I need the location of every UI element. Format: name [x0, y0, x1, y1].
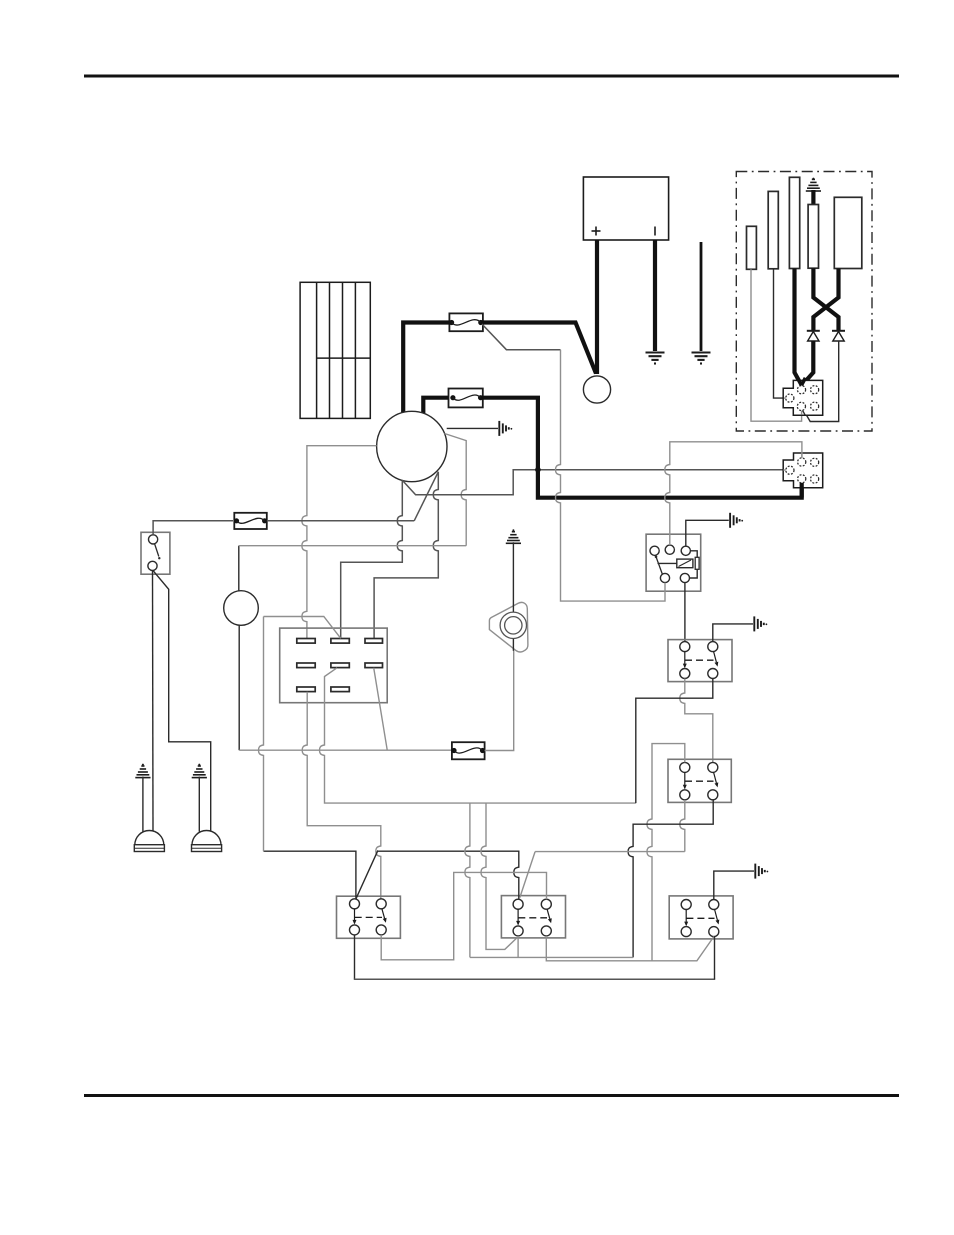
- wire alternator bottom-left vertical: [341, 480, 403, 638]
- ground SW-E (rotated): [755, 864, 768, 879]
- fuse F3: [234, 513, 267, 529]
- fuse F4: [451, 742, 485, 759]
- ground harness inverted: [806, 178, 821, 191]
- wire SW-E to ground: [714, 871, 754, 899]
- fuse F2: [449, 389, 484, 408]
- wire alternator lower-right diagonal: [445, 434, 467, 546]
- connector J2 (main): [783, 453, 823, 498]
- wire relay87 up to J2: [665, 442, 802, 545]
- diode D1: [807, 331, 820, 341]
- wire F1 to relay coil feed: [482, 324, 561, 350]
- wire bottom bus under brake switch: [470, 956, 633, 958]
- dash-dot harness box: [736, 172, 872, 432]
- page header rule: [84, 75, 899, 78]
- wire F2 right to connector (thick): [483, 398, 802, 498]
- wire F1 right to battery post (thick): [483, 323, 596, 374]
- wire hour meter top: [238, 546, 240, 591]
- wire F3 to alternator BR (accessory feed): [267, 520, 414, 522]
- switch SW-B (brake switch): [501, 896, 565, 938]
- wire battery negative (thick): [653, 240, 657, 351]
- terminal bar r2c2: [331, 663, 349, 668]
- wire SW-B TL diagonal: [520, 852, 535, 898]
- wire bus y851 right segment: [535, 851, 685, 853]
- ground engine: [692, 353, 711, 364]
- wire hour meter bottom: [238, 625, 240, 750]
- terminal T5: [834, 197, 862, 268]
- interlock module K2 (box with terminals): [280, 628, 388, 703]
- diode D2: [832, 331, 845, 341]
- wire D2 to connector pin: [803, 341, 839, 422]
- ground SW-C (rotated): [754, 616, 767, 631]
- wire diagonal alternator BR to key feed: [414, 472, 438, 521]
- node starter post circle: [583, 376, 610, 403]
- wire module r2c2 down: [320, 668, 636, 803]
- wire relay to PTO switch: [684, 583, 686, 642]
- wire bus y750 to F4: [239, 749, 451, 751]
- wire module r1c2 diagonal feed: [264, 617, 341, 639]
- wire magneto kill lead: [512, 542, 514, 651]
- wire key to F3: [153, 521, 233, 535]
- wire battery positive (thick): [595, 240, 599, 374]
- wire SW-A BL long bottom bus: [354, 935, 356, 979]
- relay K1: [646, 534, 701, 591]
- ground alternator (rotated): [499, 421, 512, 436]
- wire alternator bottom-right vertical: [374, 472, 438, 639]
- wire alternator left feed: [302, 446, 377, 639]
- wire vertical x263.5: [259, 617, 264, 852]
- ground magneto inverted: [506, 529, 521, 543]
- connector J1 (harness): [783, 378, 823, 415]
- wire module r2c3 to F4: [374, 668, 388, 751]
- ground battery negative: [646, 353, 665, 364]
- page footer rule: [84, 1094, 899, 1097]
- wire SW-D BR to y824: [628, 800, 713, 958]
- wire bus y851 left segment: [264, 850, 519, 899]
- switch SW-D (brake interlock): [668, 759, 731, 802]
- headlamp L1: [134, 764, 164, 852]
- wire T4 cross X (thick): [813, 268, 838, 330]
- terminal strip grid: [300, 282, 370, 418]
- terminal bar r1c3: [365, 639, 383, 644]
- wire module r3c1 down: [302, 692, 381, 900]
- fuse F1: [449, 313, 483, 331]
- switch SW-C (clutch relay box): [668, 640, 732, 682]
- wire SW-C to ground: [713, 624, 753, 642]
- headlamp L2: [192, 764, 222, 852]
- wire T3 stem to connector (thick): [795, 269, 802, 389]
- wire hanging x486: [481, 803, 518, 949]
- wire SW-A BR loop to y872: [381, 872, 546, 959]
- wire bus y545 hour meter to alternator: [239, 545, 466, 547]
- switch SW-A (seat switch): [337, 896, 401, 938]
- terminal T1: [747, 226, 757, 269]
- switch SW-E (PTO switch): [669, 896, 733, 939]
- wire alternator V node to regulator bus: [402, 470, 789, 495]
- wire harness ground stub (thick): [811, 190, 815, 205]
- terminal bar r2c1: [297, 663, 315, 668]
- terminal T2: [768, 191, 778, 268]
- wire relay86 to ground: [686, 520, 729, 546]
- ground relay (rotated): [730, 513, 743, 528]
- wire key lamp feed 1: [152, 571, 155, 832]
- battery BT1: [583, 177, 668, 240]
- wire SW-C BL zigzag to SW-D: [680, 679, 713, 763]
- wire hanging x470: [465, 803, 470, 957]
- wire engine ground stub: [700, 242, 703, 351]
- magneto ignition module (triangle): [489, 602, 528, 652]
- wire SW-B BR to SW-E: [546, 936, 714, 961]
- wire D1 to connector (thick): [802, 341, 813, 385]
- key switch S1: [141, 532, 170, 574]
- terminal T3: [789, 177, 799, 268]
- wire F4 to magneto: [485, 651, 514, 751]
- terminal T4: [808, 205, 818, 269]
- terminal bar r1c2: [331, 639, 349, 644]
- wire SW-D BL to y851: [680, 800, 685, 852]
- wire F1 left to starter (thick): [403, 323, 449, 414]
- wire F2 left to starter (thick): [423, 398, 448, 414]
- terminal bar r1c1: [297, 639, 315, 644]
- wire key lamp feed 2: [153, 570, 211, 831]
- wire relay30 to F1 (coil feed): [556, 350, 666, 601]
- wire T2 to connector pin: [774, 269, 785, 398]
- alternator A1 (big circle): [377, 411, 447, 481]
- terminal bar r2c3: [365, 663, 383, 668]
- wire T5 cross X (thick): [813, 269, 838, 331]
- wire SW-C BR down-left: [636, 679, 713, 804]
- terminal bar r3c2: [331, 687, 349, 692]
- wire SW-D TL loop to bottom bus: [647, 744, 685, 961]
- wire SW-B BL stub: [517, 936, 519, 958]
- terminal bar r3c1: [297, 687, 315, 692]
- wire T1 to connector pin: [751, 269, 802, 421]
- hour meter M1: [224, 591, 259, 626]
- junction dot thick crossing: [535, 467, 541, 473]
- wire alternator right to ground: [447, 427, 498, 429]
